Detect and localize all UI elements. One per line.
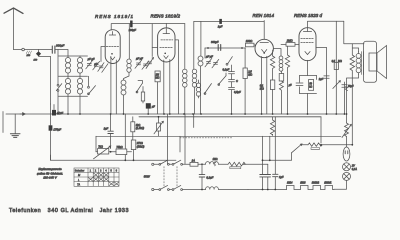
wire IF secondary [193,21,195,69]
wire tube3 top [263,21,265,40]
node [262,189,264,191]
wire osc coil [200,21,202,56]
resistor R13 NTC with arrow [342,123,351,147]
coil block mid rail [59,75,88,77]
heater comb [287,181,335,189]
svg-text:RENS 1823 d: RENS 1823 d [294,13,323,18]
capacitor C 47uF [52,105,63,116]
svg-text:50µF: 50µF [348,85,354,88]
choke L12 [206,162,229,165]
output transformer frame [364,41,377,82]
wire branch down from diamond [39,56,51,104]
capacitor C1uF top [218,19,223,29]
wire horizontal lower [51,159,177,161]
small pot 1M [213,159,218,166]
wire detector top [194,20,264,22]
resistor R11 0.5M [332,60,342,70]
svg-text:µF: µF [152,106,155,109]
barretter lamp [343,147,350,161]
svg-text:100Ω: 100Ω [246,39,253,43]
wire grid line tube3 [205,47,246,49]
junction diamond [34,50,42,62]
wire tube2 cathode down [163,60,165,114]
svg-text:7kΩ: 7kΩ [98,145,103,149]
resistor R2 small [141,87,144,104]
transformer core [362,52,364,75]
wire tube2 top [165,23,167,28]
svg-text:kΩ: kΩ [309,87,312,89]
switch S2 [88,76,96,95]
capacitor C 50uF [342,82,354,114]
ground [10,134,20,138]
capacitor C 0.2uF [199,164,213,189]
resistor R10 zigzag [285,46,289,114]
svg-text:0,5µF: 0,5µF [234,90,241,94]
coil L2 [79,56,81,76]
switch S1 [56,84,62,92]
node antenna terminal [22,48,25,51]
mains caps pair [260,136,271,189]
wire tube1 anode top [111,24,185,30]
node [241,47,243,49]
svg-text:(1,5kΩ): (1,5kΩ) [136,127,144,130]
svg-text:300µF: 300µF [211,40,219,44]
tube U3 REN 1814 [253,13,275,57]
coil block top rail [59,55,88,57]
wire vertical 125 [124,114,126,160]
wire bus2 corner down [320,117,322,143]
resistor R4 100ohm [246,39,256,47]
trimmer tube2 grid [146,58,154,69]
wire IF primary [184,24,186,70]
wire [193,114,195,128]
caption [9,208,129,214]
wire [55,50,68,57]
svg-text:1823: 1823 [300,181,306,184]
svg-text:0,1A: 0,1A [352,168,357,171]
svg-text:Schalter: Schalter [75,169,85,173]
choke L13 [206,187,249,190]
coil L8 [194,87,196,114]
coil L6 [123,95,125,114]
capacitor C blob [146,103,155,114]
wire tube2 heater down [169,60,171,115]
wire [179,136,181,152]
tube U2 RENS 1819/2 [151,14,181,114]
main bus 1 [6,113,345,115]
resistor R16 1k [131,117,144,132]
potentiometer R20 [292,143,353,160]
svg-text:1819/2: 1819/2 [312,181,320,184]
coil L9 [200,66,202,114]
trimmer arrow [333,81,341,89]
scale lamp 1 [343,163,351,171]
svg-text:1µF: 1µF [319,78,324,81]
wire [184,114,186,164]
resistor R7 zigzag [279,81,283,114]
speaker LS [369,46,387,79]
capacitor C 300pF series [211,40,221,50]
resistor R9 2M grid [281,39,299,47]
wire cap to trimmer [151,24,153,57]
svg-text:MΩ: MΩ [155,77,159,80]
trimmer grid [94,62,108,73]
wire resistor bottom down [351,73,353,145]
wire speaker top [352,48,358,52]
ground wire [14,114,16,134]
fuse F1 1A [190,159,206,167]
capacitor C on 326 [319,76,329,81]
svg-text:1µF: 1µF [279,175,284,179]
resistor R1 2M [155,71,161,114]
wire [25,49,52,51]
wire antenna to input [14,49,22,51]
coil L11 [280,49,282,72]
svg-text:1819/1: 1819/1 [324,181,332,184]
switch S6 [226,57,232,66]
coil L3 [67,76,69,96]
svg-text:2MΩ: 2MΩ [286,39,293,43]
transformer coil [358,52,360,75]
wire down from grid line [204,48,206,58]
junction dots [53,113,353,190]
svg-text:Telefunken 340 GL Admiral: Telefunken 340 GL Admiral Jahr 1933 [9,208,129,214]
small zigzag mark [345,87,347,91]
coil L1 [67,56,69,76]
svg-text:1µF: 1µF [218,24,223,28]
svg-text:1A: 1A [192,159,195,163]
coil L10 [198,80,200,98]
pot R18 [154,117,163,137]
svg-text:µF: µF [94,62,97,66]
wire tube4 anode side [316,47,326,114]
svg-text:RENS 1819/1: RENS 1819/1 [95,14,134,19]
rheostat R19 [228,162,268,168]
cathode RC network [289,60,317,114]
wire verticals mid [167,114,169,164]
wire jog [124,73,130,81]
resistor R12 zigzag speaker [350,44,355,73]
switch S5 [218,73,226,85]
wire coil block to bus [68,96,80,114]
switch S4 [204,84,211,95]
node [201,163,203,165]
svg-text:RENS 1819/2: RENS 1819/2 [151,14,181,19]
wire corner to lower rail [50,155,52,160]
main bus 2 [139,116,321,118]
capacitor C 100pF coupling [129,21,137,33]
capacitor C 175uF [49,104,62,160]
coil L5 anode [127,59,131,63]
trimmer capacitors tube1 out [135,57,149,70]
svg-text:REN 1814: REN 1814 [253,13,275,18]
left edge wire [2,112,4,133]
capacitor 300pF antenna [52,43,64,53]
wire grid tube1 [101,47,105,62]
switch table [74,168,119,186]
switch marks 150 [26,51,31,57]
svg-text:100µF: 100µF [129,28,137,32]
scale lamp 2 [343,164,358,180]
svg-text:1µF: 1µF [104,127,109,131]
arrow on bus [20,113,25,116]
resistor R17 27k [131,132,144,161]
svg-text:1814: 1814 [287,181,293,184]
pot loop left [95,136,97,152]
resistor R21 vertical [270,117,274,137]
resistor R8 box 0.1M [260,80,275,114]
trimmer capacitors [86,57,100,70]
resistor R14 7k pot [94,145,111,159]
wire down [335,21,337,114]
wire bottom rail [248,189,287,191]
svg-text:µF: µF [289,84,292,87]
capacitor C 1uF vert [104,114,114,149]
capacitor stack C detector [223,65,242,114]
svg-text:C: C [236,79,238,83]
wire tube3 anode right [273,49,281,57]
wire tube1 heater down [115,60,117,114]
coil L7 [184,87,186,114]
dashed linkage [180,137,232,139]
capacitor C 1uF heater [273,117,284,190]
coil L4 [79,76,81,96]
tube U1 RENS 1819/1 [95,14,134,64]
wire transformer bottom [347,75,359,124]
antenna [4,8,23,50]
svg-text:µF µF: µF µF [88,57,95,61]
svg-text:MΩ: MΩ [248,74,252,77]
node [267,189,269,191]
wire vertical 269.8 [263,136,292,160]
node [207,47,209,49]
tube U4 RENS 1823d [294,13,323,61]
svg-text:MΩ: MΩ [260,87,264,90]
svg-text:(18kΩ): (18kΩ) [137,145,145,148]
resistor R5 zigzag [270,56,274,80]
svg-text:TA: TA [77,182,80,186]
svg-text:0,2µF: 0,2µF [206,175,213,179]
switch S3 [136,81,142,93]
svg-text:75kΩ: 75kΩ [116,145,122,149]
svg-text:µF µF: µF µF [206,55,213,59]
wire tube1 cathode down [110,57,112,115]
resistor R3 2.5M [243,48,252,114]
coil block bottom rail [59,95,88,97]
svg-text:0,1µF: 0,1µF [223,68,230,72]
wire lamp to heater rail [334,180,347,189]
resistor R15 75k [109,145,132,154]
mains switch DP [144,160,206,190]
wire tube4 top anode [308,21,344,27]
svg-text:1MΩ: 1MΩ [213,159,218,161]
resistor R6 box [279,72,284,82]
wire tube3 down [262,56,267,114]
wire to output transformer [344,21,364,44]
trimmer pair osc [205,55,219,68]
note text [37,167,63,179]
wire antenna select vertical [57,50,59,115]
svg-text:50W: 50W [144,174,150,178]
svg-text:300µF: 300µF [56,43,64,47]
svg-text:175µF: 175µF [53,127,61,131]
svg-text:110-140 V: 110-140 V [43,176,58,180]
line y136 [96,135,341,137]
